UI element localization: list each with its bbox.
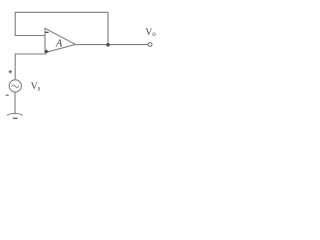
sine squiggle in source — [12, 85, 19, 88]
node terminal Vo — [148, 43, 152, 47]
op-amp plus pin label — [45, 50, 49, 54]
voltage source Vs circle — [9, 80, 21, 92]
svg-text:A: A — [55, 38, 63, 49]
node junction output — [106, 43, 110, 47]
source plus label — [9, 70, 13, 74]
wire source to ground — [14, 92, 16, 114]
wire non-inverting input — [15, 54, 46, 79]
ground lower bar — [13, 118, 18, 120]
op-amp minus pin label — [45, 32, 48, 33]
op-amp U1 — [45, 28, 75, 52]
wire output — [75, 44, 147, 46]
wire inverting input — [15, 35, 45, 37]
svg-text:Vo: Vo — [145, 28, 156, 38]
svg-text:Vs: Vs — [31, 82, 41, 92]
source minus label — [6, 95, 9, 96]
wire feedback top — [15, 12, 108, 44]
ground — [7, 113, 22, 115]
